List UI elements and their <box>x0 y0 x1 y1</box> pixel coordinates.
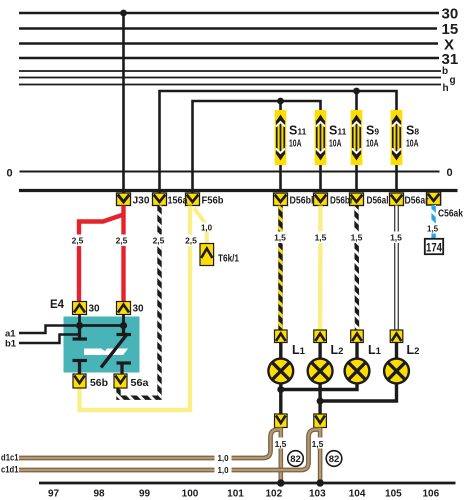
connector mark 82 (right) <box>326 451 342 467</box>
terminal (down) below L2 node <box>314 414 327 428</box>
lamp L1 right bulb <box>345 343 370 384</box>
svg-text:L2: L2 <box>407 343 420 357</box>
wire c1d1 brown <box>1 430 319 475</box>
junction dot E4 right <box>120 322 127 329</box>
svg-text:S9: S9 <box>366 124 379 138</box>
terminal F56b box <box>186 193 200 206</box>
svg-text:c1d1: c1d1 <box>1 465 19 475</box>
svg-text:b: b <box>442 66 448 77</box>
lamp terminal (up) for L1 left <box>275 330 288 343</box>
svg-text:106: 106 <box>422 489 439 500</box>
terminal 156a box <box>153 193 167 206</box>
wire black/yellow D56bl to lamp L1 <box>273 206 289 331</box>
terminal 30 (left) of E4 <box>73 302 101 315</box>
svg-text:0: 0 <box>7 168 13 180</box>
svg-text:D56bl: D56bl <box>290 195 314 207</box>
svg-text:10A: 10A <box>366 139 379 150</box>
junction dot on bus 30 at J30 column <box>120 10 127 17</box>
svg-text:T6k/1: T6k/1 <box>218 253 239 265</box>
svg-text:1,5: 1,5 <box>390 233 402 243</box>
svg-text:56a: 56a <box>131 377 149 389</box>
svg-text:S11: S11 <box>329 124 347 138</box>
svg-text:30: 30 <box>442 6 459 23</box>
svg-text:1,5: 1,5 <box>427 225 439 234</box>
wire outer frame: 156a to fuses S9/S8 <box>160 91 397 193</box>
junction dot E4 left <box>76 322 83 329</box>
svg-text:101: 101 <box>227 489 244 500</box>
terminal J30 box <box>117 193 131 206</box>
svg-text:L2: L2 <box>331 343 344 357</box>
ground track line <box>39 482 456 485</box>
svg-text:S11: S11 <box>289 124 307 138</box>
terminal C56ak box <box>427 192 441 205</box>
connector 174 <box>425 239 443 255</box>
wire a1 <box>5 326 76 340</box>
wire link lamps L1-L1 <box>281 384 357 390</box>
svg-text:174: 174 <box>426 243 443 255</box>
svg-text:0: 0 <box>447 167 453 179</box>
wire link lamps L2-L2 <box>320 384 396 402</box>
wire red branch to E4 terminal 30 (left) <box>79 215 124 303</box>
connector mark 82 (left) <box>288 451 304 467</box>
svg-text:F56b: F56b <box>202 195 224 207</box>
svg-text:30: 30 <box>133 304 145 315</box>
wire black/white D56al to lamp L1 <box>349 206 365 331</box>
lamp L2 bulb <box>308 343 333 384</box>
svg-text:C56ak: C56ak <box>438 208 463 220</box>
svg-text:104: 104 <box>349 489 366 500</box>
E4 switch lever <box>101 334 128 368</box>
svg-text:56b: 56b <box>90 377 108 389</box>
E4 right contact <box>117 326 132 375</box>
wire brown L1 terminal down to track <box>274 428 289 484</box>
bus line 30 <box>19 6 458 23</box>
switch E4 housing <box>50 299 140 373</box>
svg-text:15: 15 <box>442 21 459 38</box>
svg-text:99: 99 <box>139 489 151 500</box>
terminal D56ar box <box>390 193 404 206</box>
svg-text:30: 30 <box>89 304 101 315</box>
line 0 (inner panel rail) <box>7 167 453 180</box>
bus line X <box>19 37 454 54</box>
svg-text:103: 103 <box>309 489 326 500</box>
connector T6k/1 <box>200 244 239 266</box>
svg-text:L1: L1 <box>292 343 306 357</box>
wire red J30 to E4 terminal 30 (right) <box>121 206 125 303</box>
svg-text:S8: S8 <box>406 124 419 138</box>
lamp terminal (up) for L1 right <box>351 330 364 343</box>
wire d1c1 brown <box>1 430 280 463</box>
wire black/white 156a to E4 56a <box>119 206 168 398</box>
svg-text:1,5: 1,5 <box>315 233 327 243</box>
wire stubs into E4 + bridge with junction dots <box>80 315 124 326</box>
svg-text:2,5: 2,5 <box>72 236 84 246</box>
fuse S11 (second) 10A <box>315 110 347 192</box>
wire brown L2 terminal down to track <box>311 428 326 484</box>
junction dot node L2 <box>317 398 324 405</box>
svg-text:g: g <box>450 75 456 86</box>
label 1,0 on c1d1 <box>215 465 232 476</box>
E4 left contact <box>73 326 88 375</box>
terminal D56br box <box>314 193 328 206</box>
svg-text:10A: 10A <box>406 139 419 150</box>
junction dot node L1 <box>277 386 284 393</box>
label 1,0 on d1c1 <box>215 453 232 464</box>
svg-text:D56br: D56br <box>330 195 353 207</box>
wire yellow D56br to lamp L2 <box>313 206 329 331</box>
svg-text:h: h <box>443 83 449 94</box>
svg-text:10A: 10A <box>329 139 342 150</box>
svg-text:1,5: 1,5 <box>274 233 286 243</box>
junction dot track L1 <box>277 479 284 486</box>
wire yellow F56b branch to T6k/1 <box>194 208 214 244</box>
svg-text:d1c1: d1c1 <box>1 453 19 463</box>
wire J30 drop from bus 30 <box>122 13 125 193</box>
wire node L2 down to terminal <box>318 401 321 414</box>
svg-text:1,5: 1,5 <box>351 233 363 243</box>
svg-text:82: 82 <box>329 454 340 465</box>
track position numbers <box>48 489 440 500</box>
wire lamp L1 left down to node <box>279 384 282 390</box>
svg-text:1,5: 1,5 <box>275 439 287 449</box>
bus line h <box>19 83 449 94</box>
terminal D56al box <box>350 193 364 206</box>
junction dot S11 on inner frame <box>277 98 284 110</box>
terminal D56bl box <box>274 193 288 206</box>
svg-text:1,0: 1,0 <box>217 466 229 475</box>
lamp terminal (up) for L2 <box>314 330 327 343</box>
lamp L2 right bulb <box>384 343 409 384</box>
svg-text:82: 82 <box>290 454 301 465</box>
svg-text:100: 100 <box>182 489 199 500</box>
junction dot S9 on outer frame <box>353 88 360 110</box>
bus line b <box>19 66 448 77</box>
terminal 30 (right) of E4 <box>117 302 145 315</box>
wire C56ak blue to 174 <box>427 205 439 239</box>
svg-text:1,0: 1,0 <box>201 224 213 233</box>
fuse S8 10A <box>391 110 420 192</box>
svg-text:2,5: 2,5 <box>185 236 197 246</box>
svg-text:1,0: 1,0 <box>217 454 229 463</box>
bus line 15 <box>19 21 458 38</box>
wire inner frame: F56b to fuses S11/S11 <box>193 101 321 193</box>
svg-text:2,5: 2,5 <box>153 236 165 246</box>
wire b1 <box>5 335 78 350</box>
bus line g <box>19 75 456 86</box>
E4 mechanical slider band <box>84 349 128 356</box>
svg-text:98: 98 <box>93 489 105 500</box>
terminal (down) below L1 node <box>275 414 288 428</box>
svg-text:105: 105 <box>385 489 402 500</box>
bus line 31 <box>19 51 458 68</box>
svg-text:D56al: D56al <box>367 195 389 207</box>
lamp terminal (up) for L2 right <box>390 330 403 343</box>
svg-text:L1: L1 <box>368 343 382 357</box>
svg-text:97: 97 <box>48 489 60 500</box>
svg-text:E4: E4 <box>50 299 65 311</box>
wire yellow F56b to E4 56b <box>80 206 200 411</box>
terminal 56b of E4 <box>73 374 108 389</box>
svg-text:10A: 10A <box>289 139 302 150</box>
lamp L1 left bulb <box>268 343 293 384</box>
svg-text:J30: J30 <box>133 195 150 207</box>
svg-text:2,5: 2,5 <box>116 236 128 246</box>
svg-text:b1: b1 <box>5 339 17 350</box>
terminal 56a of E4 <box>114 374 149 389</box>
main terminal rail <box>19 189 458 192</box>
wire node L1 down to terminal <box>279 390 282 415</box>
fuse S9 10A <box>351 110 380 192</box>
svg-text:D56ar: D56ar <box>405 195 429 207</box>
fuse S11 (first) 10A <box>275 110 307 192</box>
wire white D56ar to lamp L2 <box>389 206 405 331</box>
svg-text:102: 102 <box>265 489 282 500</box>
junction dot track L2 <box>316 479 323 486</box>
svg-text:1,5: 1,5 <box>312 439 324 449</box>
wire lamp L2 down to node <box>318 384 321 402</box>
svg-text:156a: 156a <box>168 195 188 207</box>
